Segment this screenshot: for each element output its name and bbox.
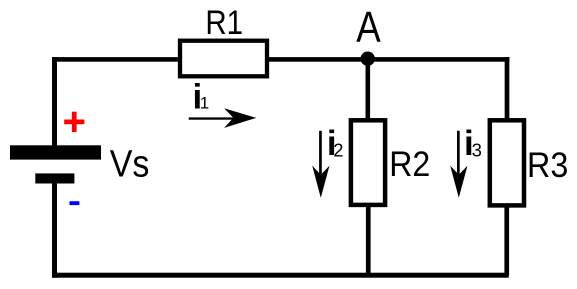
wire: top rail left segment (left corner to R1)	[52, 57, 180, 62]
wire: node A to R2 top	[366, 59, 371, 119]
resistor R2	[351, 120, 385, 205]
battery plus sign	[64, 112, 84, 132]
svg-text:1: 1	[200, 94, 209, 113]
wire: R2 bottom to bottom rail	[366, 207, 371, 276]
wire: R3 bottom to bottom rail	[504, 207, 509, 276]
svg-text:2: 2	[333, 141, 343, 161]
current i2 arrow (head)	[312, 166, 329, 198]
current i3 arrow (head)	[450, 166, 467, 198]
svg-text:R3: R3	[527, 146, 568, 185]
current i2 arrow (shaft)	[319, 131, 322, 176]
svg-text:3: 3	[472, 140, 482, 161]
svg-text:A: A	[356, 3, 381, 52]
node A dot	[361, 52, 375, 66]
battery Vs bottom plate (negative)	[35, 173, 74, 183]
resistor R3	[490, 120, 524, 205]
resistor R1	[180, 41, 267, 77]
svg-text:R2: R2	[389, 145, 430, 184]
battery minus sign	[70, 201, 80, 205]
wire: left rail lower (battery bottom plate down to bottom rail)	[52, 184, 57, 278]
wire: bottom rail	[52, 273, 509, 278]
wire: right rail (top rail corner down to R3 top)	[505, 57, 510, 119]
svg-text:R1: R1	[205, 4, 243, 42]
current i1 arrow (head)	[224, 108, 256, 128]
wire: top rail right segment (R1 to right corner)	[267, 57, 509, 62]
svg-text:Vs: Vs	[110, 144, 150, 186]
battery Vs top plate (positive)	[10, 145, 101, 159]
wire: left rail upper (top corner down to battery top plate)	[52, 57, 57, 145]
current i1 arrow (shaft)	[189, 117, 235, 119]
current i3 arrow (shaft)	[457, 131, 460, 176]
